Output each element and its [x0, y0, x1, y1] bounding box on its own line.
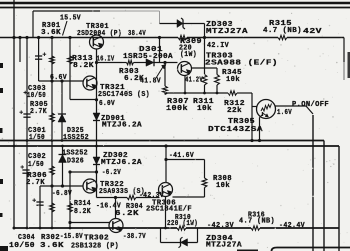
svg-text:10k: 10k — [226, 76, 240, 84]
svg-text:(1W): (1W) — [180, 51, 197, 59]
svg-text:1SS252: 1SS252 — [62, 150, 88, 158]
svg-text:4.7 (NB): 4.7 (NB) — [263, 27, 302, 35]
svg-text:1/50: 1/50 — [29, 134, 45, 142]
svg-text:D326: D326 — [67, 158, 84, 166]
svg-text:MTZJ6.2A: MTZJ6.2A — [101, 159, 142, 167]
svg-text:10/50: 10/50 — [9, 242, 35, 250]
svg-text:2SB1328 (P): 2SB1328 (P) — [71, 243, 119, 251]
svg-text:-42.4V: -42.4V — [279, 222, 305, 230]
svg-text:R302: R302 — [41, 234, 60, 242]
svg-text:MTZJ6.2A: MTZJ6.2A — [102, 122, 142, 130]
svg-text:3.6K: 3.6K — [41, 29, 61, 37]
svg-text:220 (1W): 220 (1W) — [167, 220, 198, 228]
svg-text:MTZJ27A: MTZJ27A — [206, 28, 248, 36]
svg-text:16.IV: 16.IV — [97, 56, 115, 64]
svg-text:15.5V: 15.5V — [60, 15, 81, 23]
svg-text:MTZJ27A: MTZJ27A — [206, 242, 242, 250]
svg-text:100k: 100k — [166, 105, 188, 113]
svg-text:-15.8V: -15.8V — [60, 233, 83, 241]
svg-text:42.IV: 42.IV — [207, 42, 229, 50]
svg-text:-6.2V: -6.2V — [102, 169, 121, 177]
svg-text:R314: R314 — [74, 200, 91, 208]
svg-text:10k: 10k — [197, 105, 212, 113]
svg-text:2SC1740S (S): 2SC1740S (S) — [98, 91, 150, 99]
svg-text:10/50: 10/50 — [27, 92, 46, 100]
svg-text:6.0V: 6.0V — [99, 100, 115, 108]
svg-text:C302: C302 — [28, 153, 46, 161]
svg-text:-42.3V: -42.3V — [207, 222, 234, 230]
svg-text:38.4V: 38.4V — [128, 30, 146, 38]
svg-text:1/50: 1/50 — [28, 161, 44, 169]
svg-text:8.2K: 8.2K — [73, 62, 94, 70]
svg-text:-6.8V: -6.8V — [52, 190, 72, 198]
svg-text:42V: 42V — [303, 28, 322, 36]
svg-text:2.7K: 2.7K — [26, 179, 45, 187]
svg-text:1SS252: 1SS252 — [63, 134, 89, 142]
svg-text:6.2K: 6.2K — [115, 210, 139, 218]
svg-text:C304: C304 — [18, 234, 35, 242]
svg-text:22k: 22k — [227, 107, 242, 115]
svg-text:2SD2004 (P): 2SD2004 (P) — [77, 30, 122, 38]
svg-text:41.2V: 41.2V — [185, 77, 203, 85]
svg-text:2.7K: 2.7K — [30, 108, 47, 116]
svg-text:-41.6V: -41.6V — [169, 152, 194, 160]
svg-text:2SA988 (E/F): 2SA988 (E/F) — [205, 60, 278, 68]
svg-text:3.6K: 3.6K — [40, 242, 64, 250]
svg-text:2SC1841E/F: 2SC1841E/F — [146, 206, 192, 214]
svg-text:6.6V: 6.6V — [50, 74, 67, 82]
svg-text:1SR35-200A: 1SR35-200A — [123, 53, 173, 61]
svg-text:8.2K: 8.2K — [74, 208, 91, 216]
svg-text:DTC143ZSA: DTC143ZSA — [208, 126, 263, 134]
svg-text:1.6V: 1.6V — [277, 109, 292, 117]
svg-text:P.ON/OFF: P.ON/OFF — [292, 101, 329, 109]
svg-text:4.7 (NB): 4.7 (NB) — [239, 218, 275, 226]
svg-text:10k: 10k — [216, 182, 230, 190]
svg-text:TR305: TR305 — [228, 118, 255, 126]
svg-text:41.8V: 41.8V — [140, 78, 161, 86]
svg-text:-38.7V: -38.7V — [123, 233, 146, 241]
svg-text:TR302: TR302 — [84, 235, 109, 243]
